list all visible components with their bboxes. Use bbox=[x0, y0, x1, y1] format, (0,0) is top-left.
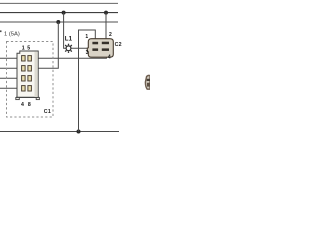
wire bus line 15 (middle) bbox=[0, 12, 118, 14]
svg-text:1: 1 bbox=[85, 34, 88, 40]
wire lamp L1 to C2 pin 3 bbox=[71, 47, 88, 49]
svg-text:C1: C1 bbox=[44, 109, 51, 115]
relay C1 body bbox=[16, 51, 40, 100]
node junction on line 15 at x=106 bbox=[104, 11, 108, 15]
wire from line 15 down to lamp L1 bbox=[64, 13, 66, 49]
connector C2 body bbox=[87, 39, 113, 58]
svg-text:C2: C2 bbox=[115, 42, 122, 48]
wire ground bus (bottom) bbox=[0, 131, 119, 133]
svg-text:4: 4 bbox=[108, 55, 111, 61]
wire relay pin 5 to connector C2 pin 4 bbox=[38, 56, 106, 59]
C2 slot top-left bbox=[92, 42, 98, 45]
relay foot left bbox=[16, 98, 19, 100]
wire bus line 30 (top) bbox=[0, 2, 118, 4]
relay pin 7 bbox=[28, 76, 32, 81]
wire to relay pin 3 bbox=[0, 77, 22, 79]
relay pin 1 bbox=[22, 56, 26, 61]
fuse partial glyph at left edge bbox=[0, 30, 2, 32]
C2 slot bottom-right bbox=[102, 48, 109, 51]
relay housing C1 dashed box bbox=[7, 42, 54, 118]
node junction on line X at x=58.3 bbox=[56, 20, 60, 24]
relay pin 2 bbox=[22, 66, 26, 71]
C2 slot bottom-left bbox=[92, 48, 98, 51]
lamp L1 symbol bbox=[65, 44, 72, 53]
relay foot right bbox=[36, 98, 39, 100]
svg-text:5: 5 bbox=[27, 46, 30, 52]
node junction on ground bus at x=78.5 bbox=[77, 130, 81, 134]
svg-text:2: 2 bbox=[109, 32, 112, 38]
relay pin 4 bbox=[22, 86, 26, 91]
svg-text:L1: L1 bbox=[65, 36, 73, 43]
svg-text:8: 8 bbox=[28, 102, 31, 108]
wire bus line X (third) bbox=[0, 21, 118, 23]
wire C2 pin 1 loop to ground bus bbox=[79, 30, 96, 132]
relay pin 8 bbox=[28, 86, 32, 91]
node junction on line 15 at x=63.6 bbox=[62, 11, 66, 15]
relay pin 6 bbox=[28, 66, 32, 71]
svg-text:4: 4 bbox=[21, 102, 24, 108]
relay pin 3 bbox=[22, 76, 26, 81]
wire to relay pin 4 bbox=[0, 87, 22, 89]
wire to relay pin 1 bbox=[0, 57, 22, 59]
wire from line X down and left to relay pin 6 bbox=[38, 22, 58, 68]
svg-text:3: 3 bbox=[86, 50, 89, 56]
svg-text:1 (5A): 1 (5A) bbox=[4, 32, 20, 38]
relay pin 5 bbox=[28, 56, 32, 61]
C2 slot top-right bbox=[102, 42, 109, 45]
svg-text:1: 1 bbox=[22, 46, 25, 52]
thumbnail icon bottom right bbox=[145, 75, 150, 89]
wire to relay pin 2 bbox=[0, 67, 22, 69]
wire from line 15 down to C2 pin 2 bbox=[105, 13, 107, 39]
